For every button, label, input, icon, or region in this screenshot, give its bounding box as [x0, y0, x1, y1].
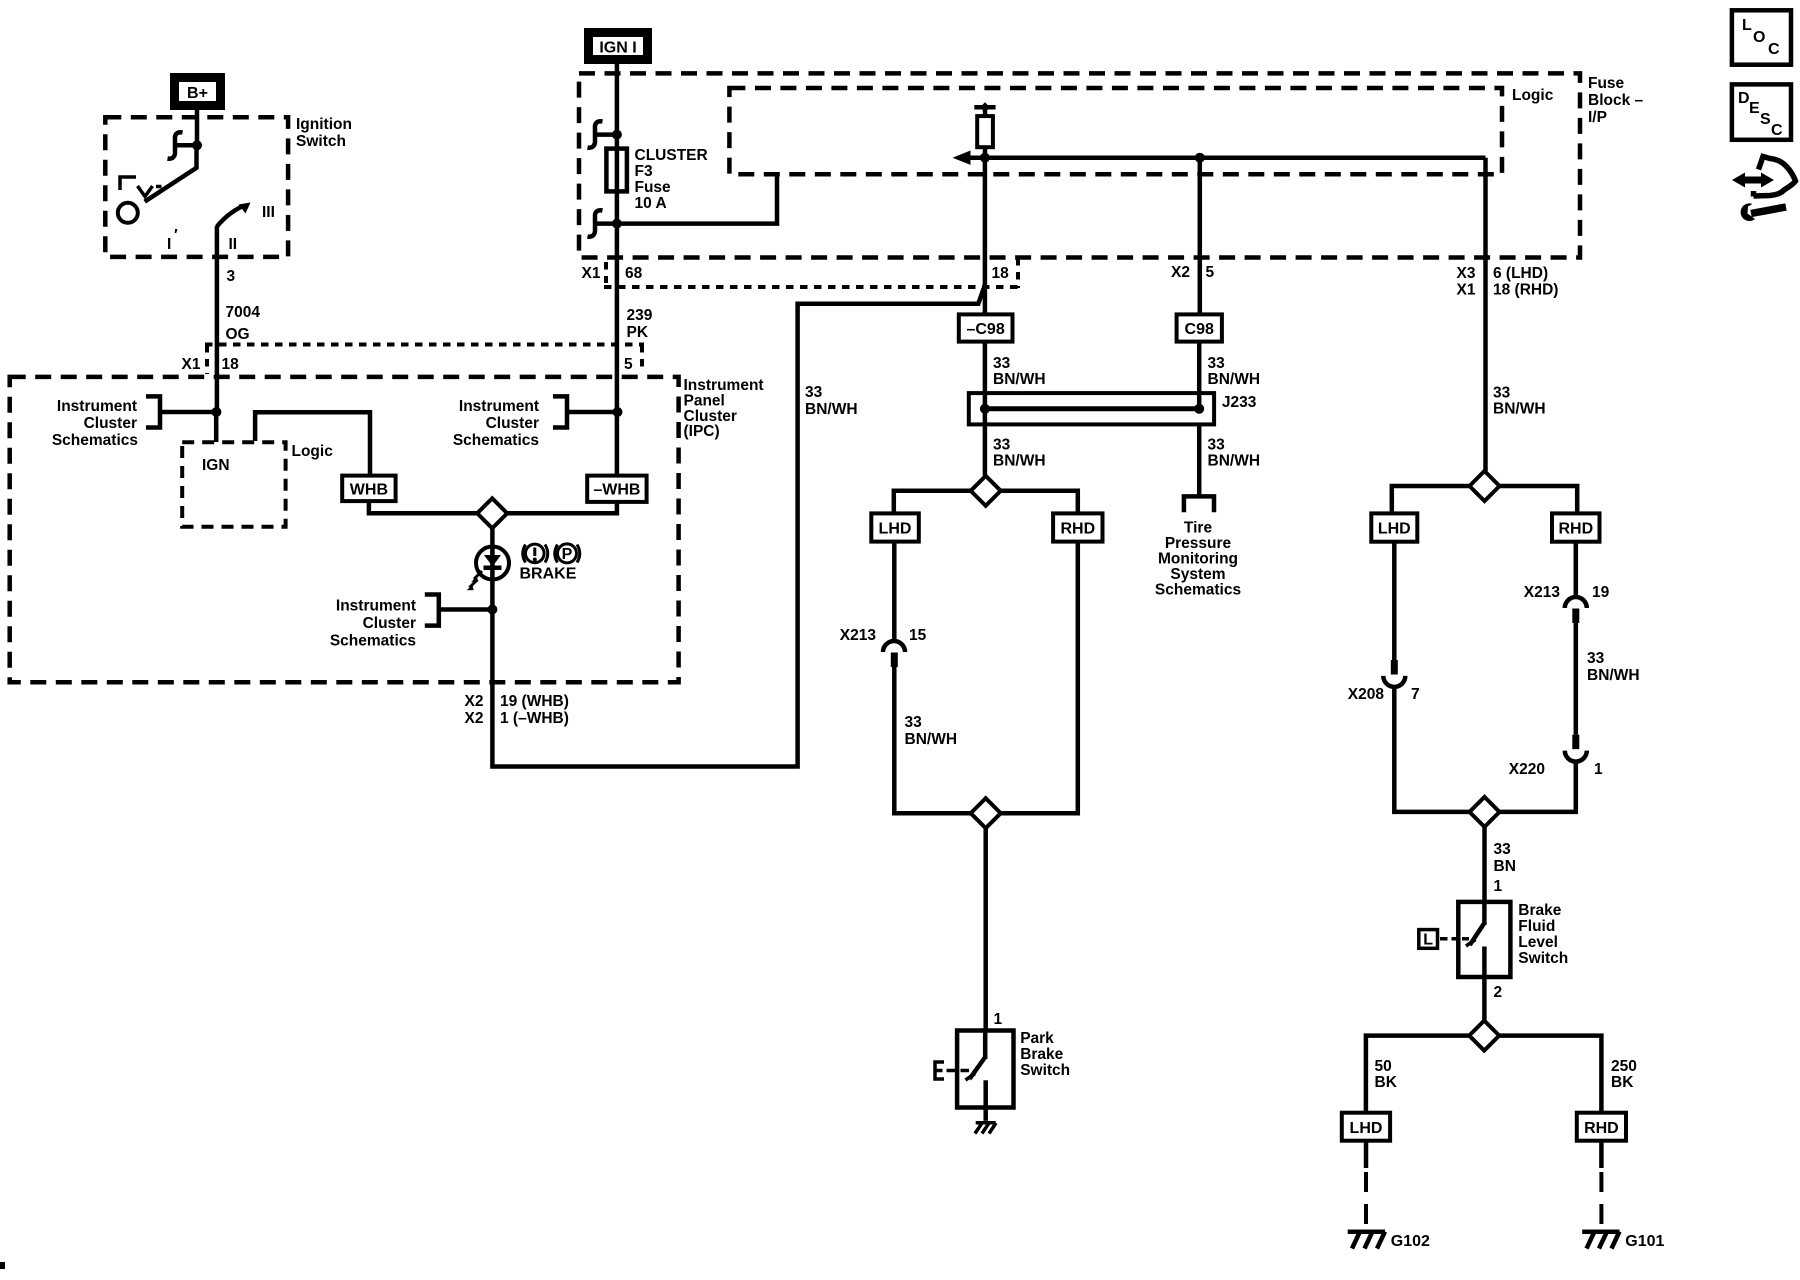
svg-text:Tire: Tire — [1184, 520, 1213, 537]
power tap IGN I box — [589, 33, 648, 60]
svg-text:C98: C98 — [1185, 321, 1214, 338]
park brake switch box — [957, 1031, 1013, 1108]
park brake switch pole wire — [983, 1031, 988, 1060]
splice J233 box — [969, 393, 1214, 424]
ignition key symbol — [120, 177, 162, 197]
svg-text:E: E — [1749, 100, 1760, 117]
svg-text:50: 50 — [1375, 1058, 1392, 1075]
svg-text:Panel: Panel — [684, 393, 725, 410]
wire logic link IGN to WHB — [255, 412, 370, 475]
svg-text:P: P — [562, 546, 573, 563]
IGN logic dashed box (IPC) — [182, 442, 285, 527]
svg-text:Fluid: Fluid — [1518, 918, 1555, 935]
connector X208-7 male tick — [1391, 660, 1398, 675]
svg-text:LHD: LHD — [1378, 521, 1411, 538]
svg-text:2: 2 — [1494, 984, 1503, 1001]
wire X208-7 to merge diamond — [1394, 687, 1470, 812]
fuse F3 upper terminal tick — [597, 132, 617, 137]
svg-text:–WHB: –WHB — [593, 482, 640, 499]
svg-text:Instrument: Instrument — [459, 398, 539, 415]
fuse F3 lower terminal hook — [588, 210, 603, 236]
svg-text:L: L — [1742, 17, 1752, 34]
svg-text:Logic: Logic — [292, 443, 334, 460]
ground G102 symbol — [1348, 1232, 1385, 1249]
ignition switch dashed box — [105, 117, 288, 257]
junction dot logic bus resistor branch — [980, 153, 990, 163]
svg-text:I: I — [167, 236, 171, 253]
park brake merge diamond — [971, 798, 1001, 828]
svg-text:C: C — [1768, 41, 1780, 58]
svg-text:33: 33 — [1493, 385, 1511, 402]
wire X2-5 down to C98 — [1198, 158, 1203, 315]
wire right RHD to X213-19 — [1574, 542, 1579, 598]
logic pull-up supply diamond dot — [980, 102, 990, 112]
ignition switch feed terminal tick — [177, 143, 197, 148]
wire RHD to lower diamond — [1001, 542, 1078, 814]
RHD box ground branch — [1577, 1113, 1626, 1141]
wire instrument cluster reference to node — [160, 410, 216, 415]
wire diamond to park brake switch pin 1 — [983, 828, 988, 1030]
wire park diamond to RHD — [1001, 491, 1078, 514]
wire 33 BN/WH X213-19 to X220-1 — [1574, 622, 1579, 735]
fuse block connector tick right of pin 18 — [1016, 258, 1020, 288]
svg-text:Cluster: Cluster — [486, 415, 539, 432]
svg-text:Instrument: Instrument — [684, 377, 764, 394]
connector X208-7 female arc — [1383, 676, 1405, 687]
svg-text:BN/WH: BN/WH — [1587, 667, 1640, 684]
brake fluid level switch box — [1458, 902, 1510, 977]
connector X213-19 female arc — [1565, 597, 1587, 608]
wire fuse block output diamond to LHD right — [1392, 486, 1470, 513]
connector X220-1 female arc — [1565, 751, 1587, 762]
junction dot J233 left — [980, 404, 990, 414]
svg-text:RHD: RHD — [1060, 521, 1095, 538]
svg-text:1: 1 — [994, 1011, 1003, 1028]
svg-text:X1: X1 — [1457, 282, 1476, 299]
svg-text:O: O — [1753, 29, 1765, 46]
brake fluid merge diamond — [1470, 797, 1500, 827]
svg-text:5: 5 — [624, 356, 633, 373]
brake fluid level switch blade — [1470, 924, 1484, 945]
svg-text:Switch: Switch — [296, 133, 346, 150]
ignition switch feed terminal hook — [168, 132, 183, 158]
svg-text:Logic: Logic — [1512, 87, 1554, 104]
junction dot ignition feed — [192, 140, 202, 150]
svg-text:1: 1 — [1494, 878, 1503, 895]
wire ignition pin 3 (circuit 7004 OG) — [215, 226, 220, 412]
svg-text:BN/WH: BN/WH — [993, 453, 1046, 470]
wire supply bar to resistor — [983, 107, 988, 116]
svg-text:II: II — [229, 236, 238, 253]
svg-text:X3: X3 — [1457, 265, 1476, 282]
svg-text:BK: BK — [1375, 1074, 1398, 1091]
svg-text:X1: X1 — [182, 356, 201, 373]
svg-text:X1: X1 — [582, 265, 601, 282]
svg-text:System: System — [1170, 566, 1225, 583]
instrument cluster reference bracket middle — [553, 396, 567, 427]
wire ground diamond to bottom RHD — [1499, 1036, 1601, 1113]
svg-text:250: 250 — [1611, 1058, 1637, 1075]
logic dashed box (fuse block) — [729, 88, 1502, 174]
svg-text:Brake: Brake — [1020, 1046, 1063, 1063]
svg-text:IGN: IGN — [202, 457, 230, 474]
fuse block X1 connector tick left — [604, 262, 608, 283]
wire J233 to TPMS reference — [1197, 424, 1202, 496]
park brake lever dashes — [947, 1069, 970, 1073]
svg-text:Schematics: Schematics — [330, 633, 416, 650]
wire X220-1 to merge diamond — [1500, 761, 1576, 812]
svg-text:BN/WH: BN/WH — [1493, 401, 1546, 418]
svg-text:C: C — [1771, 122, 1783, 139]
splice J233 bus — [985, 406, 1199, 411]
svg-text:BN/WH: BN/WH — [1208, 453, 1261, 470]
fluid level sensor link dashes — [1440, 937, 1469, 941]
fuse F3 lower terminal tick — [597, 221, 617, 226]
power tap B+ box — [175, 78, 221, 106]
svg-text:Schematics: Schematics — [1155, 582, 1241, 599]
svg-text:S: S — [1760, 111, 1771, 128]
-WHB box — [587, 476, 646, 502]
svg-text:18: 18 — [992, 265, 1010, 282]
junction dot J233 right — [1194, 404, 1204, 414]
svg-text:BN/WH: BN/WH — [905, 731, 958, 748]
wire 33 BN merge diamond to brake fluid level switch — [1482, 827, 1487, 902]
instrument cluster reference bracket left — [146, 396, 160, 427]
BRAKE LED triangle — [484, 555, 501, 567]
logic pull-up supply bar — [974, 105, 995, 110]
RHD box park branch — [1053, 513, 1102, 541]
wire 250 BK below RHD — [1599, 1141, 1604, 1168]
svg-text:33: 33 — [1587, 650, 1605, 667]
svg-text:B+: B+ — [187, 85, 208, 102]
diagnostic icon wrench — [1751, 207, 1786, 214]
ink speck bottom left — [0, 1262, 5, 1269]
svg-text:33: 33 — [1208, 355, 1226, 372]
svg-text:J233: J233 — [1222, 394, 1257, 411]
svg-text:G101: G101 — [1625, 1233, 1664, 1250]
diagnostic icon double arrow — [1741, 177, 1765, 184]
wire fuse block output diamond to RHD right — [1500, 486, 1578, 513]
wire 33 BN/WH IPC X2 to fuse block pin 18 — [492, 285, 985, 767]
svg-text:Monitoring: Monitoring — [1158, 551, 1238, 568]
wire resistor to logic bus — [983, 147, 988, 158]
svg-text:239: 239 — [627, 307, 653, 324]
instrument panel cluster dashed box — [10, 377, 679, 682]
svg-text:15: 15 — [909, 627, 927, 644]
BRAKE indicator LED circle — [476, 547, 509, 580]
svg-text:F3: F3 — [635, 163, 653, 180]
fuse block I/P dashed box — [579, 73, 1580, 257]
wire fuse output to logic box — [617, 174, 777, 223]
wire brake fluid level switch pin 2 to ground diamond — [1482, 951, 1487, 1020]
svg-text:LHD: LHD — [1350, 1120, 1383, 1137]
wire diamond to BRAKE LED — [490, 526, 495, 610]
svg-text:10 A: 10 A — [635, 195, 667, 212]
svg-text:1: 1 — [1594, 761, 1603, 778]
connector -C98 box — [959, 314, 1013, 341]
junction dot 7004 node — [211, 407, 221, 417]
IPC X1 connector tick left — [205, 345, 209, 374]
svg-text:33: 33 — [993, 355, 1011, 372]
svg-text:RHD: RHD — [1558, 521, 1593, 538]
wire instrument cluster reference to 239 node — [569, 410, 618, 415]
junction dot logic bus X2-5 branch — [1195, 153, 1205, 163]
svg-text:33: 33 — [1494, 841, 1512, 858]
park brake ground — [975, 1123, 996, 1134]
LHD box right branch — [1371, 513, 1417, 541]
svg-text:68: 68 — [625, 265, 643, 282]
svg-text:Switch: Switch — [1518, 950, 1568, 967]
svg-text:X2: X2 — [465, 710, 484, 727]
svg-text:Instrument: Instrument — [336, 598, 416, 615]
park brake switch contact — [983, 1080, 988, 1121]
svg-text:III: III — [262, 204, 275, 221]
brake fluid level switch pole wire — [1482, 902, 1487, 925]
fluid level sensor L box — [1419, 930, 1438, 949]
BRAKE LED light arrows — [470, 571, 483, 588]
IPC X1 connector dotted line — [205, 343, 644, 347]
wire WHB to lamp diamond — [369, 501, 480, 513]
svg-text:33: 33 — [805, 384, 823, 401]
svg-text:(IPC): (IPC) — [684, 423, 720, 440]
svg-text:Brake: Brake — [1518, 902, 1561, 919]
junction dot fuse top — [612, 130, 622, 140]
svg-text:CLUSTER: CLUSTER — [635, 147, 708, 164]
fuse F3 upper terminal hook — [588, 121, 603, 147]
svg-text:Pressure: Pressure — [1165, 535, 1232, 552]
LOC legend box — [1732, 10, 1791, 64]
fuse F3 body — [606, 149, 627, 192]
connector X213-15 female arc — [883, 641, 905, 652]
svg-text:BN: BN — [1494, 858, 1516, 875]
svg-text:X220: X220 — [1509, 761, 1545, 778]
svg-text:Park: Park — [1020, 1030, 1054, 1047]
svg-text:WHB: WHB — [350, 482, 388, 499]
svg-text:L: L — [1423, 932, 1433, 949]
wire LHD to X213-15 — [892, 542, 897, 642]
fuse block X1 connector dotted line — [604, 285, 1019, 289]
svg-text:Switch: Switch — [1020, 1062, 1070, 1079]
logic bus wire with arrow — [962, 155, 1486, 160]
svg-text:LHD: LHD — [879, 521, 912, 538]
wire park diamond to LHD — [894, 491, 971, 514]
park brake lever symbol E — [934, 1061, 945, 1081]
wire junction to IGN logic box — [214, 412, 219, 442]
svg-text:I/P: I/P — [1588, 109, 1607, 126]
diagnostic icon outline curve — [1754, 157, 1796, 197]
svg-text:X213: X213 — [840, 627, 877, 644]
svg-text:18 (RHD): 18 (RHD) — [1493, 282, 1558, 299]
junction dot 239 node — [613, 407, 623, 417]
TPMS off-page staple — [1184, 496, 1214, 512]
svg-text:Schematics: Schematics — [52, 432, 138, 449]
svg-text:BN/WH: BN/WH — [993, 371, 1046, 388]
brake fluid branch diamond — [1470, 471, 1500, 501]
svg-text:BRAKE: BRAKE — [520, 566, 577, 583]
svg-text:Ignition: Ignition — [296, 116, 352, 133]
park brake switch blade tick — [966, 1074, 976, 1081]
svg-text:Cluster: Cluster — [84, 415, 137, 432]
svg-text:7004: 7004 — [226, 304, 261, 321]
svg-text:X2: X2 — [1171, 264, 1190, 281]
svg-text:33: 33 — [1208, 437, 1226, 454]
ground split diamond — [1469, 1021, 1499, 1051]
wire 50 BK below LHD — [1364, 1141, 1369, 1168]
svg-text:7: 7 — [1411, 686, 1420, 703]
RHD box right branch — [1552, 513, 1600, 541]
LHD box park branch — [871, 513, 919, 541]
svg-text:RHD: RHD — [1584, 1120, 1619, 1137]
dashed wire to G102 — [1364, 1172, 1368, 1224]
svg-text:Fuse: Fuse — [1588, 75, 1625, 92]
BRAKE LED cathode bar — [484, 566, 502, 571]
svg-text:BK: BK — [1611, 1074, 1634, 1091]
connector X213-15 male tick — [891, 653, 898, 668]
junction dot LED cathode node — [487, 605, 497, 615]
lamp feed diamond (WHB node) — [477, 498, 507, 528]
wire ground diamond to bottom LHD — [1366, 1036, 1469, 1113]
connector C98 box — [1177, 314, 1222, 341]
svg-text:Level: Level — [1518, 934, 1558, 951]
ground G101 symbol — [1582, 1232, 1619, 1249]
wire -WHB to lamp diamond — [505, 502, 617, 513]
LHD box ground branch — [1342, 1113, 1390, 1141]
svg-text:Schematics: Schematics — [453, 432, 539, 449]
svg-text:BN/WH: BN/WH — [805, 401, 858, 418]
resistor (logic pull-up) — [977, 116, 993, 147]
brake fluid level switch blade tick — [1466, 940, 1476, 947]
svg-text:D: D — [1738, 90, 1750, 107]
ignition switch wiper blade — [145, 145, 197, 201]
svg-text:X208: X208 — [1348, 686, 1385, 703]
wire instrument cluster reference to LED cathode node — [439, 607, 493, 612]
svg-text:19 (WHB): 19 (WHB) — [500, 693, 569, 710]
connector X213-19 male tick — [1572, 609, 1579, 624]
BRAKE telltale icons — [523, 545, 580, 563]
brake fluid level switch contact — [1482, 947, 1487, 978]
logic bus arrowhead — [953, 151, 971, 165]
svg-text:X2: X2 — [465, 693, 484, 710]
svg-text:6 (LHD): 6 (LHD) — [1493, 265, 1548, 282]
svg-text:–C98: –C98 — [966, 321, 1004, 338]
svg-text:Instrument: Instrument — [57, 398, 137, 415]
svg-text:G102: G102 — [1391, 1233, 1430, 1250]
IPC connector tick right of pin 5 — [640, 345, 644, 371]
svg-text:3: 3 — [227, 268, 236, 285]
svg-text:Fuse: Fuse — [635, 179, 672, 196]
svg-text:19: 19 — [1592, 584, 1610, 601]
junction dot fuse bottom — [612, 219, 622, 229]
park brake switch blade — [970, 1058, 985, 1079]
svg-text:33: 33 — [905, 714, 923, 731]
WHB box — [342, 476, 395, 502]
wire -C98 to J233 to park diamond — [983, 342, 988, 476]
wire C98 to J233 — [1197, 342, 1202, 409]
instrument cluster reference bracket lower — [425, 595, 439, 626]
svg-text:OG: OG — [226, 326, 250, 343]
connector X220-1 male tick — [1572, 735, 1579, 750]
svg-text:5: 5 — [1206, 264, 1215, 281]
svg-text:IGN I: IGN I — [599, 40, 636, 57]
svg-text:X213: X213 — [1524, 584, 1561, 601]
svg-text:33: 33 — [993, 437, 1011, 454]
wire right LHD to X208-7 — [1392, 542, 1397, 660]
svg-text:PK: PK — [627, 324, 649, 341]
wire X213-15 to lower diamond — [894, 667, 971, 813]
ignition position arrow to III — [217, 206, 243, 227]
svg-text:Cluster: Cluster — [363, 615, 416, 632]
wire fuse block RH output down to diamond — [1483, 158, 1488, 471]
svg-text:Block –: Block – — [1588, 92, 1644, 109]
svg-text:′: ′ — [174, 227, 178, 244]
svg-text:BN/WH: BN/WH — [1208, 371, 1261, 388]
park brake branch diamond — [971, 476, 1001, 506]
DESC legend box — [1732, 84, 1791, 139]
wire logic bus down to pin 18 branch — [983, 158, 988, 315]
svg-text:1 (–WHB): 1 (–WHB) — [500, 710, 569, 727]
ignition switch common circle — [118, 203, 138, 223]
wire IGN I feed through fuse F3 down to -WHB — [615, 64, 620, 476]
dashed wire to G101 — [1599, 1172, 1603, 1224]
wire B+ feed into ignition switch — [195, 110, 200, 145]
svg-text:18: 18 — [222, 356, 240, 373]
